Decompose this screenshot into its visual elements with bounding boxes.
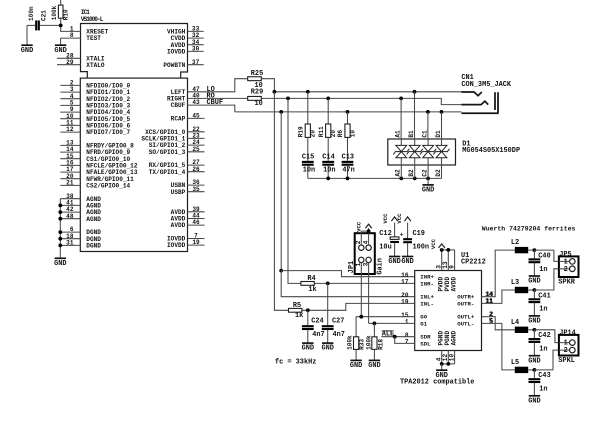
- wire CBUF net horizontal: [235, 111, 462, 113]
- svg-text:VCC: VCC: [430, 238, 437, 249]
- svg-text:B2: B2: [408, 169, 415, 177]
- svg-text:R25: R25: [251, 70, 263, 78]
- pin 1 XRESET: [61, 25, 109, 35]
- svg-text:2: 2: [564, 347, 568, 355]
- resistor R25 10: [248, 70, 264, 90]
- svg-text:C40: C40: [538, 252, 550, 260]
- svg-text:RCAP: RCAP: [171, 116, 186, 123]
- wire CBUF to INL+ pin20: [281, 271, 415, 297]
- pin 12 NFDIO7/IO0_7: [60, 126, 130, 136]
- pin 31 DGND: [60, 240, 101, 250]
- svg-text:CON_3M5_JACK: CON_3M5_JACK: [461, 81, 511, 89]
- capacitor C21 100n: [27, 6, 61, 30]
- svg-text:SO/GPIO1_3: SO/GPIO1_3: [149, 149, 186, 156]
- junction L3/C41: [533, 288, 537, 292]
- ground at C21: [21, 25, 33, 54]
- svg-text:Wuerth 74279204 ferrites: Wuerth 74279204 ferrites: [482, 225, 576, 232]
- svg-text:DGND: DGND: [86, 243, 101, 250]
- svg-text:17: 17: [401, 279, 409, 286]
- wire JP1 pin1 to G0: [360, 274, 362, 317]
- junction L4/C42: [533, 328, 537, 332]
- svg-text:2: 2: [564, 266, 568, 274]
- ground at TEST: [54, 38, 66, 55]
- svg-text:1n: 1n: [539, 386, 547, 394]
- svg-text:GND: GND: [401, 258, 413, 266]
- svg-text:4: 4: [363, 240, 370, 244]
- ground at IC1 AGND/DGND: [54, 258, 66, 268]
- wire U1 pin 11 to L3: [482, 290, 515, 303]
- U1 ground pins 4 12 10 PGND PGND AGND: [435, 331, 457, 364]
- pin 9 NFDIO4/IO0_4: [60, 106, 130, 116]
- svg-text:R18: R18: [377, 339, 384, 350]
- svg-text:5: 5: [489, 318, 493, 325]
- svg-text:GND: GND: [21, 47, 33, 55]
- svg-text:1n: 1n: [539, 266, 547, 274]
- svg-text:45: 45: [192, 113, 200, 120]
- junction RIGHT/R4 drop: [286, 97, 290, 101]
- junction XRESET/R10/C21: [59, 24, 63, 28]
- wire L3 out: [528, 289, 534, 291]
- inductor L2 ferrite: [511, 239, 528, 253]
- svg-text:4n7: 4n7: [312, 331, 324, 339]
- junction C14/bus: [326, 177, 330, 181]
- capacitor C15 10n: [302, 137, 315, 178]
- svg-text:B1: B1: [408, 130, 415, 138]
- wire R4 out to INR- pin17: [314, 282, 414, 284]
- svg-text:100n: 100n: [28, 6, 35, 21]
- pin 5 NFDIO3/IO0_3: [60, 100, 130, 110]
- resistor R6 10: [337, 112, 356, 137]
- junction D1-A2/bus: [399, 177, 403, 181]
- svg-text:C43: C43: [538, 372, 550, 380]
- pin 33 VHIGH: [167, 26, 204, 36]
- wire L5 out: [528, 369, 534, 371]
- pin 21 CS2/GPIO0_14: [60, 180, 130, 190]
- svg-text:1: 1: [405, 319, 409, 326]
- svg-text:48: 48: [66, 213, 74, 220]
- U1 pin 16 INR+: [401, 272, 434, 281]
- svg-text:47n: 47n: [342, 166, 354, 174]
- svg-text:JP5: JP5: [559, 251, 571, 259]
- resistor R18 100k: [365, 323, 384, 360]
- junction CBUF/R6: [346, 110, 350, 114]
- svg-text:L3: L3: [511, 279, 519, 287]
- svg-text:R29: R29: [251, 88, 263, 96]
- IC IC1 VS1000-L body: [80, 24, 187, 252]
- capacitor C12 10u: [379, 223, 404, 257]
- D1 pin labels A1 B1 C1 D1: [395, 130, 442, 138]
- svg-text:19: 19: [401, 299, 409, 306]
- capacitor C19 100n: [403, 223, 429, 257]
- svg-text:12: 12: [66, 126, 74, 133]
- ground at C42: [528, 356, 540, 366]
- U1 pin 14 OUTR+: [457, 291, 493, 301]
- pin 44 AVDD: [171, 213, 205, 223]
- wire U1 pin 5 to L5: [482, 323, 515, 370]
- pin 20 NFWR/GPIO0_11: [60, 173, 134, 183]
- svg-text:46: 46: [192, 219, 200, 226]
- svg-text:GND: GND: [321, 345, 333, 353]
- wire filter/D1 ground bus: [308, 177, 442, 179]
- wire CBUF net down: [280, 112, 282, 271]
- junction RIGHT/R11: [326, 97, 330, 101]
- pin 37 POWBTN: [163, 59, 203, 69]
- junction CBUF/U1 drop: [279, 110, 283, 114]
- svg-text:SPKL: SPKL: [558, 357, 575, 365]
- svg-text:2: 2: [355, 240, 362, 244]
- junction D1-B2/bus: [413, 177, 417, 181]
- svg-text:VCC: VCC: [396, 213, 403, 224]
- svg-text:C14: C14: [322, 154, 334, 162]
- svg-text:R4: R4: [307, 275, 315, 283]
- capacitor C24 4n7: [302, 310, 325, 343]
- U1 power pins 3 13 9 PVDD PVDD AVDD: [435, 250, 457, 292]
- svg-text:SPKR: SPKR: [558, 279, 575, 287]
- power VCC arrow at JP1: [355, 221, 371, 233]
- pin 45 RCAP: [171, 113, 205, 123]
- svg-text:INL-: INL-: [420, 300, 434, 307]
- svg-text:37: 37: [192, 59, 200, 66]
- connector JP14 SPKL: [559, 335, 579, 356]
- wire L4 out: [528, 329, 534, 331]
- power VCC arrow at U1: [430, 238, 445, 250]
- svg-text:POWBTN: POWBTN: [163, 62, 185, 69]
- pin 30 IOVDD: [167, 46, 204, 56]
- svg-text:10: 10: [349, 130, 356, 138]
- svg-text:31: 31: [66, 240, 74, 247]
- svg-text:7: 7: [405, 339, 409, 346]
- wire RIGHT net horizontal: [261, 98, 461, 104]
- U1 pin 8 SDR: [405, 332, 431, 341]
- svg-text:1: 1: [355, 262, 362, 266]
- svg-text:GND: GND: [302, 345, 314, 353]
- junction RIGHT/D1-A1: [399, 97, 403, 101]
- svg-text:L4: L4: [511, 319, 519, 327]
- pin 42 AGND: [60, 206, 101, 216]
- pin 35 USBP: [171, 186, 205, 196]
- junction R18/G1: [373, 322, 377, 326]
- pin 43 CBUF: [171, 99, 200, 109]
- svg-text:30: 30: [192, 46, 200, 53]
- U1 pin 7 SDL: [405, 339, 431, 348]
- wire U1 pin 14 to L2: [482, 250, 515, 297]
- svg-text:25: 25: [192, 146, 200, 153]
- svg-text:GND: GND: [54, 260, 66, 268]
- svg-text:1n: 1n: [539, 306, 547, 314]
- ground at U1: [435, 364, 447, 380]
- pin 25 SO/GPIO1_3: [149, 146, 205, 156]
- svg-text:100k: 100k: [51, 5, 58, 20]
- junction gnd bus pins: [58, 204, 62, 248]
- power VCC arrow at C19: [396, 213, 411, 224]
- inductor L5 ferrite: [511, 359, 528, 373]
- svg-text:GND: GND: [388, 258, 400, 266]
- wire ALE to SDR pin8: [381, 336, 414, 338]
- svg-text:10: 10: [448, 354, 455, 362]
- diode array D1 MG054S05X150DP: [388, 139, 456, 165]
- svg-text:GND: GND: [528, 357, 540, 365]
- svg-text:OUTR-: OUTR-: [457, 300, 474, 307]
- junction R4/C27: [326, 282, 330, 286]
- svg-text:C1: C1: [422, 130, 429, 138]
- inductor L3 ferrite: [511, 279, 528, 293]
- U1 pin 2 OUTL+: [457, 311, 493, 321]
- svg-text:29: 29: [66, 59, 74, 66]
- wire R25 out to LEFT net: [261, 79, 274, 92]
- connector CN1 CON_3M5_JACK: [461, 92, 498, 113]
- capacitor C41 1n: [529, 290, 551, 316]
- pin 26 TX/GPIO1_4: [149, 166, 205, 176]
- wire RO from pin40: [188, 97, 248, 99]
- wire LEFT net down to R5: [274, 92, 288, 310]
- pin 2 NFDIO0/IO0_0: [60, 80, 130, 90]
- svg-text:C24: C24: [311, 318, 323, 326]
- junction LEFT/R19: [306, 90, 310, 94]
- wire G0 row to U1 pin15: [356, 316, 415, 318]
- svg-text:MG054S05X150DP: MG054S05X150DP: [462, 147, 520, 155]
- svg-text:OUTL-: OUTL-: [457, 320, 474, 327]
- pin 38 AGND: [60, 193, 101, 203]
- svg-text:GND: GND: [54, 47, 66, 55]
- pin 41 AGND: [60, 200, 101, 210]
- U1 pin 15 G0: [401, 312, 428, 321]
- svg-text:TEST: TEST: [86, 35, 101, 42]
- pin 22 XCS/GPIO1_0: [145, 126, 204, 136]
- junction C13/bus: [346, 177, 350, 181]
- svg-text:20: 20: [310, 130, 317, 138]
- svg-text:35: 35: [192, 186, 200, 193]
- svg-text:CP2212: CP2212: [461, 259, 486, 267]
- pin 18 DGND: [60, 233, 101, 243]
- U1 pin 19 INL-: [401, 299, 434, 308]
- pin 23 SCLK/GPIO1_1: [141, 133, 204, 143]
- svg-text:Gain: Gain: [376, 258, 384, 275]
- svg-text:10n: 10n: [303, 166, 315, 174]
- svg-text:10u: 10u: [379, 244, 391, 252]
- resistor R11 20: [318, 98, 337, 137]
- pin 24 SI/GPIO1_2: [149, 139, 205, 149]
- wire JP1 pin3 to G1: [368, 274, 370, 323]
- capacitor C13 47n: [342, 137, 355, 178]
- svg-text:R5: R5: [293, 302, 301, 310]
- U1 pin 20 INL+: [401, 292, 434, 301]
- junction LEFT/D1-B1: [413, 90, 417, 94]
- svg-text:100n: 100n: [413, 244, 430, 252]
- pin 3 NFDIO1/IO0_1: [60, 86, 130, 96]
- svg-text:A2: A2: [395, 169, 402, 177]
- pin 39 AVDD: [171, 206, 205, 216]
- svg-text:VCC: VCC: [382, 213, 389, 224]
- svg-text:IOVDD: IOVDD: [167, 242, 186, 249]
- D1 bottom pin leads: [401, 165, 441, 178]
- JP1 pin numbers 2 4 1 3: [355, 240, 369, 266]
- svg-text:19: 19: [192, 239, 200, 246]
- svg-text:C15: C15: [302, 154, 314, 162]
- wire R5 out to INL- pin19: [302, 303, 415, 310]
- ground at C24: [302, 343, 314, 353]
- wire L2 to JP5 pin1: [534, 250, 559, 261]
- pin 28 XTALI: [57, 52, 105, 62]
- wire LO from pin47: [188, 79, 248, 92]
- svg-text:D2: D2: [435, 169, 442, 177]
- svg-text:XTALO: XTALO: [86, 62, 105, 69]
- wire L3 to JP5 pin2: [534, 269, 559, 290]
- capacitor C27 4n7: [322, 283, 345, 343]
- ground at C40: [528, 276, 540, 286]
- capacitor C43 1n: [529, 370, 551, 396]
- ground at C19: [401, 257, 413, 267]
- pin 47 LEFT: [171, 86, 200, 96]
- wire U1 pin 2 to L4: [482, 317, 515, 330]
- pin 36 USBN: [171, 179, 205, 189]
- pin 19 IOVDD: [167, 239, 204, 249]
- svg-text:SDL: SDL: [420, 340, 431, 347]
- capacitor C42 1n: [529, 330, 551, 356]
- junction U1 vcc pins: [440, 248, 444, 252]
- svg-text:VS1000-L: VS1000-L: [81, 16, 104, 23]
- junction JP1 VCC: [367, 229, 371, 233]
- wire RIGHT net down to R4: [288, 98, 301, 283]
- junction L2/C40: [533, 248, 537, 252]
- svg-text:AGND: AGND: [86, 216, 101, 223]
- svg-text:CBUF: CBUF: [171, 102, 186, 109]
- svg-text:+: +: [400, 232, 404, 239]
- svg-text:GND: GND: [528, 397, 540, 405]
- ground at C27: [321, 343, 333, 353]
- resistor R5 1k: [289, 302, 304, 320]
- ground at R18: [368, 360, 380, 370]
- svg-text:ALE: ALE: [382, 331, 394, 339]
- U1 pin 17 INR-: [401, 279, 434, 288]
- svg-text:R10: R10: [62, 9, 69, 20]
- svg-text:L5: L5: [511, 359, 519, 367]
- svg-text:10: 10: [255, 100, 263, 108]
- resistor R4 1k: [301, 275, 317, 294]
- wire LEFT net horizontal: [274, 91, 461, 93]
- ground at R33: [350, 360, 362, 370]
- svg-text:AVDD: AVDD: [171, 222, 186, 229]
- junction JP1/G0: [359, 315, 363, 319]
- resistor R10 100k: [51, 0, 70, 25]
- wire AGND/DGND bus: [59, 199, 61, 259]
- U1 pin 1 G1: [405, 319, 428, 328]
- junction CBUF/INR+ branch: [279, 269, 283, 273]
- svg-text:A1: A1: [395, 130, 402, 138]
- svg-text:fc = 33kHz: fc = 33kHz: [275, 359, 316, 367]
- svg-text:9: 9: [448, 265, 455, 269]
- inductor L4 ferrite: [511, 319, 528, 333]
- wire L4 to JP14 pin1: [534, 330, 559, 343]
- svg-text:100k: 100k: [365, 335, 372, 350]
- resistor R33 100k: [347, 317, 366, 361]
- svg-text:TPA2012 compatible: TPA2012 compatible: [400, 378, 474, 386]
- capacitor C40 1n: [529, 250, 551, 276]
- wire L5 to JP14 pin2: [534, 350, 559, 370]
- svg-text:CBUF: CBUF: [207, 99, 224, 107]
- pin 34 AVDD: [171, 39, 204, 49]
- wire CBUF from pin43: [188, 105, 235, 112]
- svg-text:NFDIO7/IO0_7: NFDIO7/IO0_7: [86, 129, 130, 136]
- svg-text:JP1: JP1: [348, 261, 356, 273]
- svg-text:C19: C19: [413, 230, 425, 238]
- pin 46 AVDD: [171, 219, 205, 229]
- connector JP5 SPKR: [559, 256, 579, 277]
- svg-text:C41: C41: [538, 292, 550, 300]
- svg-text:C12: C12: [379, 230, 391, 238]
- svg-text:4n7: 4n7: [333, 331, 345, 339]
- svg-text:1n: 1n: [539, 346, 547, 354]
- svg-text:20: 20: [330, 130, 337, 138]
- ground at D1: [422, 178, 434, 194]
- svg-text:GND: GND: [350, 362, 362, 370]
- pin 14 NFRD/GPIO0_9: [60, 146, 130, 156]
- svg-text:GND: GND: [528, 278, 540, 286]
- capacitor C14 10n: [322, 137, 335, 178]
- svg-text:AGND: AGND: [451, 331, 458, 346]
- power VCC arrow at C12: [382, 213, 398, 224]
- svg-text:VCC: VCC: [355, 221, 362, 232]
- svg-text:11: 11: [485, 298, 493, 305]
- svg-text:GND: GND: [368, 362, 380, 370]
- wire to SDL pin7: [395, 337, 415, 344]
- resistor R19 20: [297, 92, 316, 138]
- svg-text:C2: C2: [422, 169, 429, 177]
- svg-text:C27: C27: [332, 318, 344, 326]
- svg-text:C13: C13: [342, 154, 354, 162]
- svg-text:INR-: INR-: [420, 280, 434, 287]
- net label ALE (active low, overline): [382, 331, 394, 339]
- svg-text:IOVDD: IOVDD: [167, 49, 186, 56]
- U1 pin 5 OUTL-: [457, 318, 493, 328]
- svg-text:100k: 100k: [347, 335, 354, 350]
- wire G1 row to U1 pin1: [369, 322, 415, 324]
- resistor R29 10: [248, 88, 264, 108]
- svg-text:CS2/GPIO0_14: CS2/GPIO0_14: [86, 183, 130, 190]
- pin 4 NFDIO2/IO0_2: [60, 93, 130, 103]
- pin 15 CS1/GPIO0_10: [60, 153, 130, 163]
- svg-text:JP14: JP14: [559, 329, 576, 337]
- junction SDR/SDL: [393, 335, 397, 339]
- pin 16 NFCLE/GPIO0_12: [60, 160, 138, 170]
- wire CBUF to INR+ pin16: [281, 271, 415, 277]
- svg-text:1k: 1k: [295, 312, 303, 320]
- svg-text:C42: C42: [538, 332, 550, 340]
- junction D1-C2/bus: [426, 177, 430, 181]
- wire L2 out: [528, 249, 534, 251]
- svg-text:L2: L2: [511, 239, 519, 247]
- pin 6 DGND: [60, 226, 101, 236]
- svg-text:R11: R11: [318, 126, 325, 137]
- pin 17 NFALE/GPIO0_13: [60, 166, 138, 176]
- svg-text:10n: 10n: [323, 166, 335, 174]
- svg-text:AVDD: AVDD: [451, 277, 458, 292]
- pin 32 CVDD: [171, 32, 204, 42]
- U1 pin 11 OUTR-: [457, 298, 493, 308]
- svg-text:3: 3: [363, 262, 370, 266]
- pin 8 TEST: [61, 32, 102, 42]
- svg-text:USBP: USBP: [171, 189, 186, 196]
- svg-text:D1: D1: [435, 130, 442, 138]
- svg-text:21: 21: [66, 180, 74, 187]
- pin 13 NFRDY/GPIO0_8: [60, 140, 134, 150]
- pin 11 NFDIO6/IO0_6: [60, 120, 130, 130]
- junction L5/C43: [533, 368, 537, 372]
- D1 pin labels A2 B2 C2 D2: [395, 169, 442, 177]
- junction U1 gnd pins: [440, 362, 444, 366]
- ground at C43: [528, 396, 540, 406]
- pin 27 RX/GPIO1_5: [149, 159, 205, 169]
- junction LEFT/R25: [273, 90, 277, 94]
